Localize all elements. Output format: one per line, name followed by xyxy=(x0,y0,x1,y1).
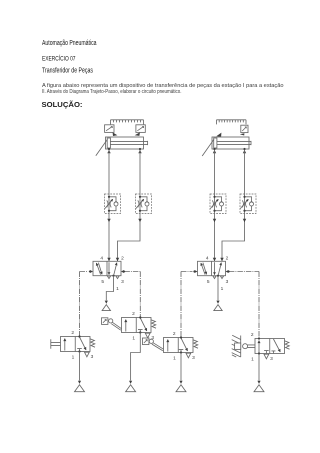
wire cylinder 2A rod port to 2V2 xyxy=(244,150,246,194)
5/2-way valve 1V body xyxy=(93,261,121,275)
svg-text:1: 1 xyxy=(72,354,75,360)
wire 2V1 to valve 2V port 4 xyxy=(214,214,216,262)
cylinder 1A cushioning arrow xyxy=(96,139,108,156)
svg-text:3: 3 xyxy=(192,355,195,361)
wire valve 2S1 port 1 to air supply xyxy=(180,353,182,381)
svg-text:Transferidor de Peças: Transferidor de Peças xyxy=(42,68,93,75)
valve 2S1 port 1 connection xyxy=(180,351,182,353)
valve 1S1 port 3 exhaust xyxy=(85,352,90,357)
svg-text:1: 1 xyxy=(116,286,119,292)
wire cylinder 2A cap port to 2V1 xyxy=(214,150,216,194)
cylinder 1A piston rod xyxy=(110,141,147,145)
valve 2S2 exhaust diagonal (closed position) xyxy=(273,339,280,352)
valve 1S1 exhaust diagonal (closed position) xyxy=(80,337,87,350)
flow control valve 1V1 (one-way, cylinder 1A cap end) xyxy=(105,194,121,214)
valve 2S1 port 3 exhaust xyxy=(186,353,191,358)
svg-text:1: 1 xyxy=(221,286,224,292)
flow control valve 1V2 (one-way, cylinder 1A rod end) xyxy=(136,194,152,214)
svg-text:4: 4 xyxy=(100,256,103,262)
3/2-way valve 2S2 body xyxy=(255,339,285,354)
valve 1S2 port 2 connection xyxy=(139,316,141,318)
svg-text:1: 1 xyxy=(251,356,254,362)
valve 1S2 blocked port 1 xyxy=(138,330,143,333)
cylinder 1A piston xyxy=(107,138,110,148)
svg-text:Automação Pneumática: Automação Pneumática xyxy=(42,40,97,47)
distance rule of cylinder 1A xyxy=(111,120,144,125)
3/2-way valve 2S1 body xyxy=(164,338,194,353)
svg-text:3: 3 xyxy=(91,354,94,360)
valve 1S2 return spring xyxy=(151,320,156,328)
svg-text:2: 2 xyxy=(251,332,254,338)
valve 1S2 flow arrow (pass position) xyxy=(125,320,127,332)
wire valve 1S2 port 1 to air supply (jog) xyxy=(131,333,141,381)
distance rule of cylinder 2A xyxy=(217,120,247,125)
compressed air supply of valve 2V xyxy=(216,301,219,304)
cylinder 1A port 4 connection xyxy=(108,148,110,150)
svg-text:1: 1 xyxy=(173,355,176,361)
svg-text:3: 3 xyxy=(226,279,229,285)
5/2-way valve 2V body xyxy=(198,261,226,275)
compressed air supply of valve 2S1 xyxy=(179,381,182,384)
valve 2S2 flow arrow (pass position) xyxy=(258,341,260,353)
svg-text:3: 3 xyxy=(270,356,273,362)
wire cylinder 1A rod port to 1V2 xyxy=(139,150,141,194)
valve 1S2 exhaust diagonal (closed position) xyxy=(140,318,147,331)
valve 2S2 port 2 connection xyxy=(258,337,260,339)
valve 1V left position (crossed flow) xyxy=(96,263,100,275)
compressed air supply of valve 1S1 xyxy=(78,381,81,384)
valve 2V port 5 exhaust xyxy=(213,276,216,279)
valve 2S1 return spring xyxy=(193,340,198,348)
svg-text:2: 2 xyxy=(121,256,124,262)
svg-text:1: 1 xyxy=(132,335,135,341)
roller plunger of valve 2S2 xyxy=(243,344,248,349)
valve 2S1 port 2 connection xyxy=(180,336,182,338)
pilot line 12 of valve 1V (left, from valve 1S1) xyxy=(80,272,89,337)
wire cylinder 1A cap port to 1V1 xyxy=(108,150,110,194)
svg-text:SOLUÇÃO:: SOLUÇÃO: xyxy=(42,100,83,109)
svg-text:2: 2 xyxy=(226,256,229,262)
marker arrow 1S2 xyxy=(135,132,140,136)
valve 1S2 port 3 exhaust xyxy=(145,333,150,338)
3/2-way valve 1S1 body xyxy=(61,337,91,352)
compressed air supply of valve 2S2 xyxy=(257,381,260,384)
valve 2S1 exhaust diagonal (closed position) xyxy=(181,338,188,351)
marker arrow 1S1 xyxy=(113,132,118,136)
flow control valve 2V2 (one-way, cylinder 2A rod end) xyxy=(240,194,256,214)
wire 1V2 to valve 1V port 2 (elbow) xyxy=(118,214,141,262)
cylinder 2A piston xyxy=(214,138,217,148)
pilot line 14 of valve 1V (right, from valve 1S2) xyxy=(124,272,140,318)
cylinder 2A cushioning arrow xyxy=(202,139,214,156)
marker box of valve 1S2 xyxy=(102,318,108,325)
valve 2S2 blocked port 3 xyxy=(264,351,269,354)
pilot line 12 of valve 2V (left, from valve 2S1) xyxy=(181,272,193,338)
marker box of valve 2S1 xyxy=(143,338,149,345)
svg-text:5: 5 xyxy=(207,279,210,285)
svg-text:2: 2 xyxy=(71,330,74,336)
valve 1S1 flow arrow (pass position) xyxy=(64,339,66,351)
cylinder 2A barrel xyxy=(212,137,249,149)
valve 1V right position (parallel flow) xyxy=(108,262,110,275)
svg-text:II. Através do Diagrama Trajet: II. Através do Diagrama Trajeto-Passo, e… xyxy=(42,89,182,95)
position marker box 2S2 (cylinder 2A) xyxy=(241,125,248,132)
valve 1V port 3 exhaust xyxy=(116,276,119,279)
valve 1S1 port 2 connection xyxy=(78,335,80,337)
marker arrow 2S1 xyxy=(216,133,221,137)
wire 1V1 to valve 1V port 4 xyxy=(108,214,110,262)
cylinder 2A port 4 connection xyxy=(213,148,215,150)
cam block of valve 2S2 xyxy=(235,343,241,349)
valve 2S1 blocked port 1 xyxy=(179,350,184,353)
flow control valve 2V1 (one-way, cylinder 2A cap end) xyxy=(210,194,226,214)
svg-text:5: 5 xyxy=(101,279,104,285)
compressed air supply of valve 1V xyxy=(105,301,108,304)
svg-text:A figura abaixo representa um: A figura abaixo representa um dispositiv… xyxy=(42,83,284,89)
marker arrow 2S2 xyxy=(240,133,245,135)
wire valve 2S2 port 1 to air supply xyxy=(258,354,260,381)
valve 1S2 port 1 connection xyxy=(139,331,141,333)
valve 2V right position (parallel flow) xyxy=(214,262,216,275)
svg-text:3: 3 xyxy=(121,279,124,285)
wire valve 2V port 1 to air supply xyxy=(217,276,219,301)
valve 1V port 5 exhaust xyxy=(107,276,110,279)
svg-text:2: 2 xyxy=(173,331,176,337)
valve 2S2 return spring xyxy=(285,341,290,349)
cylinder 1A barrel xyxy=(106,137,144,149)
pilot line 14 of valve 2V (right, from valve 2S2) xyxy=(229,272,259,339)
valve 2S2 port 1 connection xyxy=(258,352,260,354)
valve 2V left position (crossed flow) xyxy=(201,263,205,275)
valve 2S2 port 3 exhaust xyxy=(264,354,269,359)
wire valve 1S1 port 1 to air supply xyxy=(79,352,81,381)
wire valve 1V port 1 to air supply xyxy=(106,276,113,301)
position marker box 1S1 (left, cylinder 1A) xyxy=(105,125,114,133)
pushbutton actuator of valve 1S1 xyxy=(51,339,61,348)
valve 1S1 return spring xyxy=(90,339,95,347)
roller lever actuator of valve 2S1 xyxy=(149,339,153,343)
valve 1S1 blocked port 1 xyxy=(77,349,82,352)
compressed air supply of valve 1S2 xyxy=(129,381,132,384)
valve 2V port 3 exhaust xyxy=(220,276,223,279)
valve 2S1 flow arrow (pass position) xyxy=(167,340,169,352)
valve 1S1 port 1 connection xyxy=(78,350,80,352)
cylinder 2A port 2 connection xyxy=(243,148,245,150)
wire 2V2 to valve 2V port 2 (elbow) xyxy=(222,214,245,262)
cylinder 1A port 2 connection xyxy=(139,148,141,150)
cylinder 2A piston rod xyxy=(217,141,251,145)
svg-text:EXERCÍCIO 07: EXERCÍCIO 07 xyxy=(42,53,76,62)
fixed cam wall (hatched) pressing valve 2S2 xyxy=(240,336,242,358)
3/2-way valve 1S2 body xyxy=(122,318,152,333)
svg-text:4: 4 xyxy=(206,256,209,262)
roller lever actuator of valve 1S2 xyxy=(109,319,113,323)
svg-text:2: 2 xyxy=(132,311,135,317)
position marker box 1S2 (right, cylinder 1A) xyxy=(136,125,145,133)
